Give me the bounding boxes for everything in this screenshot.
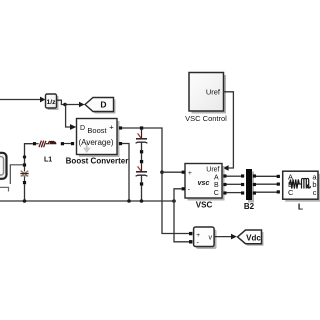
svg-text:(Average): (Average): [79, 138, 114, 147]
svg-text:B2: B2: [244, 202, 255, 211]
capacitor C1 bottom port: [140, 150, 143, 153]
junction dot node in: [23, 155, 26, 158]
svg-text:1/z: 1/z: [46, 99, 56, 106]
wire boost plus rail: [122, 128, 162, 172]
svg-text:VSC Control: VSC Control: [185, 114, 227, 123]
svg-text:Vdc: Vdc: [246, 233, 261, 242]
junction node plus: [160, 170, 164, 174]
svg-text:Boost Converter: Boost Converter: [66, 156, 129, 165]
capacitor Cin top port: [23, 163, 26, 166]
wire voltmeter to Vdc tag: [214, 234, 237, 240]
wires B2 to L: [256, 175, 277, 177]
wire C2 to bus: [141, 186, 143, 201]
VSC converter block: [185, 164, 225, 201]
wires VSC to B2: [227, 175, 242, 177]
wire L1 left to capacitor branch: [25, 144, 33, 164]
voltmeter port -: [189, 240, 192, 243]
VSC control block Uref: [189, 73, 226, 114]
svg-text:c: c: [313, 188, 317, 197]
VSC port +: [182, 171, 185, 174]
boost left port: [71, 142, 74, 145]
junction dot bus-vsc-minus: [172, 199, 176, 203]
boost right port -: [119, 142, 122, 145]
svg-text:+: +: [109, 123, 114, 132]
svg-text:C: C: [288, 188, 294, 197]
unit delay 1/z: [46, 94, 59, 110]
capacitor Cin: [20, 167, 28, 181]
capacitor C1 top port: [140, 126, 143, 129]
wire boost minus rail: [122, 144, 129, 202]
dc bus wire: [0, 200, 174, 202]
wire to VSC +: [162, 171, 182, 173]
wire Cin to bus: [24, 184, 26, 201]
wire VSC minus to bus to voltmeter: [174, 189, 189, 242]
svg-text:D: D: [80, 125, 85, 132]
capacitor C2: [136, 163, 148, 182]
svg-text:Boost: Boost: [87, 126, 107, 135]
svg-text:L1: L1: [44, 157, 52, 164]
wire duty to boost D input: [66, 105, 77, 130]
VSC output ports A B C: [223, 174, 226, 177]
svg-text:C: C: [214, 190, 219, 197]
svg-text:B: B: [214, 182, 219, 189]
junction dot bus-caps: [140, 199, 144, 203]
svg-text:Uref: Uref: [206, 166, 219, 173]
wire plus rail down to voltmeter: [162, 172, 189, 233]
junction dot: [63, 103, 67, 107]
wire source to node: [10, 165, 23, 184]
wire 1/z to goto D: [56, 100, 84, 107]
svg-text:+: +: [196, 232, 200, 239]
boost converter U-BOOST block: [77, 119, 120, 158]
boost right port +: [119, 126, 122, 129]
capacitor C1: [136, 130, 148, 150]
dc source block (cut off at left): [0, 153, 7, 179]
wire input duty-cycle from left edge: [0, 97, 45, 103]
breaker B2: [241, 169, 256, 203]
goto tag Vdc: [238, 230, 264, 246]
capacitor Cin bottom port: [23, 181, 26, 184]
svg-text:L: L: [298, 202, 303, 212]
svg-text:A: A: [214, 174, 219, 181]
svg-text:Uref: Uref: [206, 88, 221, 97]
three-phase RL block L: [277, 171, 320, 202]
capacitor C2 bottom port: [140, 182, 143, 185]
junction dot bus-minus: [127, 199, 131, 203]
svg-text:+: +: [188, 170, 192, 177]
svg-text:vsc: vsc: [198, 180, 210, 187]
capacitor C2 top port: [140, 160, 143, 163]
svg-text:v: v: [209, 235, 213, 242]
wire source bottom to bus: [0, 187, 9, 191]
inductor L1 branch: [33, 141, 71, 148]
svg-text:D: D: [100, 99, 106, 109]
voltmeter block: [194, 227, 217, 249]
svg-text:VSC: VSC: [196, 201, 213, 210]
wire Uref to VSC: [223, 92, 234, 171]
VSC port -: [182, 187, 185, 190]
goto tag D: [85, 98, 116, 114]
voltmeter port +: [189, 232, 192, 235]
wire C1 to C2: [141, 153, 143, 160]
junction dot bus-source: [23, 199, 27, 203]
